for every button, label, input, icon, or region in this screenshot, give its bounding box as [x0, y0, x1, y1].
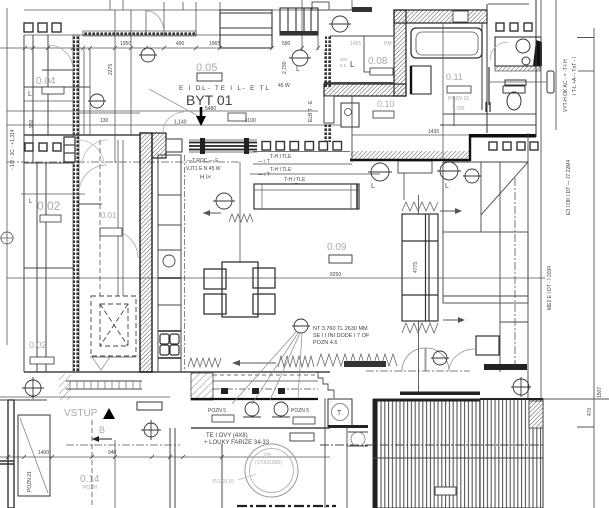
- dashed shaft: [91, 296, 136, 356]
- svg-text:VSTUP: VSTUP: [64, 408, 98, 419]
- closet 2: [280, 8, 318, 35]
- svg-text:1400: 1400: [38, 450, 49, 456]
- right rooms: [443, 133, 528, 400]
- svg-text:4775: 4775: [413, 262, 419, 273]
- svg-text:T: T: [337, 410, 342, 417]
- svg-text:I T-L +A- - TnT - I: I T-L +A- - TnT - I: [572, 57, 578, 95]
- kitchen island: [254, 184, 359, 209]
- svg-text:— i T: — i T: [258, 172, 270, 178]
- svg-text:- 1/2 - 3C - +1,314: - 1/2 - 3C - +1,314: [10, 129, 16, 170]
- wall stub: [64, 137, 75, 162]
- svg-text:470: 470: [587, 407, 593, 416]
- svg-text:0.04: 0.04: [36, 76, 56, 87]
- main wall: vertical hatched wall kitchen: [140, 133, 152, 372]
- svg-text:B: B: [99, 425, 105, 435]
- svg-text:0.14: 0.14: [80, 474, 100, 485]
- wall: left vertical dotted wall: [73, 35, 79, 372]
- svg-text:0.05: 0.05: [196, 62, 217, 74]
- T box: [328, 399, 352, 427]
- cooktop: [163, 255, 175, 267]
- svg-text:1,785: 1,785: [452, 106, 465, 112]
- svg-text:POZN 5: POZN 5: [208, 408, 226, 414]
- squares row right: [489, 142, 538, 150]
- axis dashdot: [514, 178, 516, 370]
- svg-text:POZN: POZN: [83, 485, 97, 491]
- left border line: [6, 8, 8, 345]
- sofa: [402, 214, 438, 321]
- door jamb lines: [418, 195, 420, 214]
- svg-text:VYT-H OK AC - = -T-I H: VYT-H OK AC - = -T-I H: [563, 59, 569, 112]
- svg-text:590: 590: [282, 41, 291, 47]
- deck lines: [320, 444, 543, 446]
- svg-text:E I DL- TE I L- E TL: E I DL- TE I L- E TL: [179, 85, 269, 92]
- T-H TLE labels: [258, 154, 306, 189]
- svg-text:490: 490: [176, 41, 185, 47]
- dashdot hall line: [7, 161, 240, 163]
- room 0.02 left block: [24, 163, 330, 372]
- wall: hatched band under kitchen: [324, 84, 406, 96]
- svg-text:1435: 1435: [428, 129, 439, 135]
- label pill: [547, 71, 554, 93]
- radiator zigzag small: [229, 214, 253, 222]
- corridor 0.01 lines: [24, 48, 140, 296]
- bottom dim line: [0, 456, 330, 458]
- door arcs to terrace: [402, 348, 449, 371]
- living room bottom windows band: [191, 373, 213, 400]
- svg-text:T-H I TLE: T-H I TLE: [270, 167, 292, 173]
- kitchen cabinets strip: [158, 155, 181, 372]
- arrows right: [440, 210, 460, 212]
- svg-text:—T ROC — E: —T ROC — E: [187, 158, 219, 164]
- stool: [476, 336, 499, 355]
- hall panel: [324, 96, 334, 123]
- wc bottom walls: [443, 113, 536, 115]
- svg-text:1507: 1507: [597, 387, 603, 398]
- radiator zigzag below sofa: [402, 323, 438, 333]
- svg-text:POZN 15: POZN 15: [213, 479, 234, 485]
- svg-text:E3 I OK I DT — J7 22M4: E3 I OK I DT — J7 22M4: [566, 160, 572, 215]
- node: grid verticals top: [110, 0, 352, 262]
- svg-text:0.11: 0.11: [446, 72, 463, 82]
- right margin verticals: [488, 0, 609, 508]
- svg-text:POZN 4.6: POZN 4.6: [313, 340, 337, 346]
- svg-text:0.01: 0.01: [101, 211, 117, 220]
- wc room: [496, 23, 532, 31]
- planter dark: [344, 361, 386, 367]
- svg-text:0.02: 0.02: [37, 199, 61, 213]
- squares row mid-left: [25, 143, 61, 151]
- room 0.04 walls: [24, 35, 140, 372]
- circle symbols: [22, 16, 531, 440]
- leader fan: [232, 332, 302, 404]
- svg-text:(1700/1900): (1700/1900): [255, 460, 282, 466]
- svg-text:PM: PM: [384, 41, 392, 47]
- vanity: [495, 37, 541, 66]
- svg-text:NT 3.760 TL 2630 MM: NT 3.760 TL 2630 MM: [313, 326, 368, 332]
- svg-text:1950: 1950: [120, 41, 131, 47]
- bottom center verticals: [170, 428, 330, 508]
- long radiator zigzag bottom: [188, 358, 221, 367]
- svg-text:SE I I INI DODE I 7 OF: SE I I INI DODE I 7 OF: [313, 333, 370, 339]
- svg-text:5480: 5480: [205, 106, 216, 112]
- svg-text:TE I OVY (4X8): TE I OVY (4X8): [206, 433, 248, 439]
- deck right: [480, 399, 543, 508]
- label box on deck: [435, 487, 456, 495]
- steps right of band: [318, 372, 334, 398]
- svg-text:1455: 1455: [350, 41, 361, 47]
- svg-text:130: 130: [100, 118, 109, 124]
- svg-text:+ LOUKY FARIZE 34-33: + LOUKY FARIZE 34-33: [204, 440, 270, 446]
- stairs rail top: [66, 381, 142, 389]
- towel radiator: [505, 80, 526, 85]
- svg-text:0.09: 0.09: [327, 242, 347, 253]
- svg-text:L: L: [371, 183, 375, 190]
- washer J: [341, 103, 359, 127]
- top line: [24, 9, 330, 11]
- squares row top-left: [24, 23, 61, 32]
- door arc: [147, 11, 164, 33]
- svg-text:45 W: 45 W: [278, 83, 290, 89]
- svg-text:2275: 2275: [108, 64, 114, 75]
- svg-text:ME2 E I DT - I 2034: ME2 E I DT - I 2034: [547, 266, 553, 310]
- threshold: [398, 161, 432, 173]
- wall: top hatched band: [394, 10, 487, 23]
- bath right wall: [481, 23, 483, 110]
- svg-text:0.02: 0.02: [29, 340, 47, 350]
- svg-text:H I×: H I×: [200, 175, 212, 181]
- top dim chain: [0, 47, 240, 49]
- dim chain mid: [7, 111, 470, 135]
- svg-text:940: 940: [108, 450, 117, 456]
- svg-text:POZN 21: POZN 21: [27, 471, 33, 492]
- squares row center: [262, 142, 342, 151]
- dining table: [222, 262, 258, 317]
- lintel band above living room: [189, 143, 257, 150]
- kitchen 0.08: [324, 10, 394, 83]
- svg-text:POZN 5: POZN 5: [291, 408, 309, 414]
- svg-text:0.08: 0.08: [368, 56, 388, 67]
- svg-text:L: L: [445, 183, 449, 190]
- deck left: [373, 399, 480, 508]
- wire: long dimension and grid lines: [0, 8, 545, 457]
- chairs: [204, 268, 275, 314]
- svg-text:1100: 1100: [245, 118, 256, 124]
- mid long line: [7, 277, 545, 279]
- svg-text:ELB T - E: ELB T - E: [308, 100, 314, 122]
- shower: [411, 66, 431, 94]
- svg-text:9.0: 9.0: [340, 63, 347, 68]
- svg-text:0.10: 0.10: [377, 99, 395, 109]
- sink bowls: [160, 334, 179, 355]
- svg-text:8250: 8250: [330, 272, 341, 278]
- svg-text:POZN 15: POZN 15: [448, 96, 469, 102]
- svg-text:2,790: 2,790: [282, 61, 288, 74]
- svg-text:L: L: [28, 91, 32, 98]
- svg-text:L: L: [296, 66, 300, 73]
- svg-text:VJT1 E N 45 W: VJT1 E N 45 W: [186, 166, 221, 172]
- svg-text:T-H I TLE: T-H I TLE: [270, 154, 292, 160]
- radiator zigzag above sofa: [402, 202, 438, 211]
- svg-text:1,140: 1,140: [174, 120, 187, 126]
- left bottom margin: [8, 400, 14, 508]
- door swing V: [92, 357, 110, 370]
- wall: top-left dotted wall band: [83, 31, 196, 36]
- wall: left hatched band: [394, 10, 406, 96]
- toilet: [503, 86, 525, 93]
- svg-text:L: L: [350, 60, 355, 69]
- bathtub: [411, 28, 482, 58]
- svg-text:800: 800: [340, 57, 348, 62]
- bath bottom wall with hatch: [350, 151, 470, 160]
- big round tub bottom: [245, 444, 298, 497]
- svg-text:220: 220: [263, 453, 272, 459]
- hatched patch on deck: [529, 401, 543, 428]
- svg-text:1965: 1965: [209, 41, 220, 47]
- dim texts: [38, 41, 439, 456]
- door swing arcs: [48, 42, 508, 258]
- bench dark: [484, 364, 527, 370]
- svg-text:950: 950: [29, 119, 35, 128]
- wardrobe top: [220, 10, 272, 48]
